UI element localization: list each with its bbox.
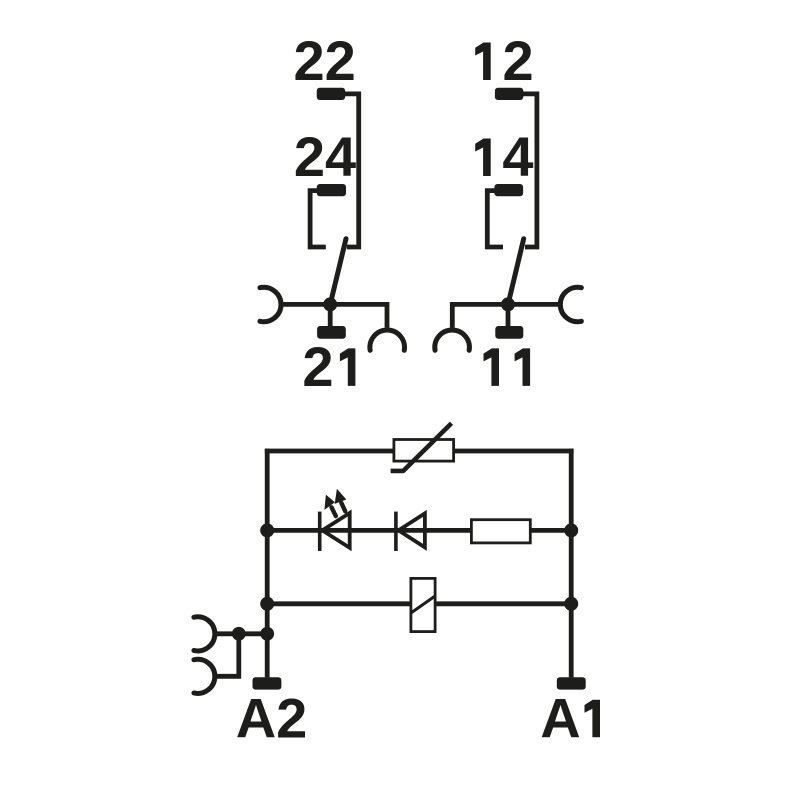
socket contact arc upper A2 [194,617,215,651]
terminal bar 22 [317,88,345,100]
label 11 [484,348,500,386]
wire coil loop top horizontal [265,449,574,454]
wire coil loop left vertical [265,449,270,678]
wire coil branch [267,601,571,606]
node dot branch2 left [260,523,274,537]
switch lever 21-22 [330,239,346,305]
LED cathode bar [318,512,322,551]
socket contact arc left of 21 [260,287,281,321]
svg-text:A2: A2 [236,686,308,749]
node dot socket branch [232,627,246,641]
wire from 12 to NC contact [521,94,537,247]
label 12 [475,43,491,81]
terminal bar A1 [557,677,586,689]
relay coil body [411,578,435,631]
wire socket branch A2 [215,631,268,636]
relay coil diagonal [411,596,435,613]
wire common 11 [452,304,560,327]
node dot branch3 left [260,597,274,611]
socket contact arc below left of 11 [435,330,470,350]
svg-text:24: 24 [294,125,356,188]
terminal bar 21 [317,326,346,339]
terminal bar 14 [494,184,523,196]
node dot branch2 right [564,523,578,537]
node dot branch3 right [564,597,578,611]
label 14 [475,139,491,177]
LED arrow 1 [324,495,335,516]
wire LED diode resistor branch [267,528,571,533]
resistor body [471,520,530,543]
wire from 22 to NC contact [343,94,359,247]
wire from 14 to NO contact [487,191,503,247]
node junction 11 [501,297,515,311]
wire common 21 [281,304,387,327]
node dot A2 vertical [260,627,274,641]
terminal bar A2 [253,677,282,689]
svg-text:2: 2 [503,29,534,92]
diode triangle [399,513,425,547]
svg-text:2: 2 [302,335,333,398]
wire from 24 to NO contact [310,191,326,247]
wire lower socket to branch [215,634,239,677]
LED arrow 2 [335,489,347,512]
node junction 21 [323,297,337,311]
wire node to terminal 11 [506,304,511,326]
socket contact arc lower A2 [194,659,215,693]
wire node to terminal 21 [328,304,333,326]
wire coil loop right vertical [569,449,574,678]
socket contact arc right of 11 [560,287,581,321]
svg-text:4: 4 [502,125,533,188]
switch lever 11-12 [508,239,524,305]
terminal bar 24 [317,184,346,196]
svg-text:22: 22 [293,29,355,92]
terminal bar 11 [495,326,523,339]
LED triangle [322,513,349,548]
varistor body [394,440,454,462]
svg-text:A: A [540,686,580,749]
socket contact arc below right of 21 [370,330,405,350]
terminal bar 12 [495,88,523,100]
varistor diagonal strike [391,423,452,471]
diode cathode bar [394,512,398,551]
